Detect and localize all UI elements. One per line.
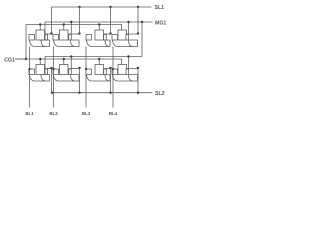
wire SL2 riser x51.5 — [51, 68, 53, 93]
node cell R1C2 MG junction — [70, 21, 72, 23]
wire cell R1C4 MG riser — [128, 22, 130, 35]
node SL2 junction x110 — [109, 92, 111, 94]
wire CG1 row2 horizontal — [15, 58, 122, 60]
node SL2 junction x52 — [51, 92, 53, 94]
wire cell R2C2 channel with drain curl — [54, 75, 75, 82]
transistor cell R1C1 memory-gate sidewall box — [45, 35, 48, 41]
node cell R1C1 CG junction — [39, 23, 41, 25]
wire SL2 riser x138 — [137, 68, 139, 93]
wire SL2 horizontal — [52, 92, 153, 94]
wire cell R2C2 source strap — [69, 68, 80, 70]
node cell R2C2 SL junction — [78, 67, 80, 69]
node cell R1C1 SL junction — [50, 32, 52, 34]
wire cell R2C1 source diffusion bump — [41, 75, 50, 82]
wire cell R2C2 source diffusion bump — [71, 75, 80, 82]
node cell R2C2 MG junction — [70, 55, 72, 57]
transistor cell R2C1 memory-gate sidewall box — [45, 69, 48, 75]
wire cell R2C1 CG stub — [39, 59, 41, 65]
node cell R1C3 CG junction — [98, 23, 100, 25]
wire cell R2C1 source strap — [45, 68, 52, 70]
wire cell R2C3 source diffusion bump — [105, 75, 110, 82]
wire cell R1C1 source strap — [45, 33, 52, 35]
wire MG1 riser right — [141, 22, 143, 57]
wire cell R2C3 channel with drain curl — [87, 75, 110, 82]
wire cell R1C2 source diffusion bump — [71, 40, 80, 47]
node MG1 right junction — [141, 21, 143, 23]
wire cell R1C1 channel with drain curl — [30, 40, 46, 47]
svg-text:MG1: MG1 — [155, 21, 166, 27]
node cell R2C1 CG junction — [39, 58, 41, 60]
wire SL1 horizontal — [52, 6, 152, 8]
wire SL1 drop x110.5 — [110, 7, 112, 34]
wire cell R1C3 source strap — [104, 33, 111, 35]
node BL1 pad junction — [28, 68, 30, 70]
wire cell R2C4 source strap — [126, 68, 138, 70]
contact cell R1C3 drain pad — [86, 35, 92, 41]
node cell R2C4 SL junction — [137, 67, 139, 69]
transistor cell R1C4 memory-gate sidewall box — [126, 35, 129, 41]
transistor cell R2C1 select-gate box — [36, 65, 45, 75]
node cell R2C1 SL junction — [50, 67, 52, 69]
svg-text:CG1: CG1 — [4, 57, 15, 63]
contact cell R1C2 drain pad — [53, 35, 59, 41]
wire cell R2C2 CG stub — [63, 59, 65, 65]
transistor cell R2C4 select-gate box — [118, 65, 127, 75]
wire cell R2C3 source strap — [104, 68, 111, 70]
wire cell R2C4 MG riser — [128, 57, 130, 70]
wire cell R2C4 channel with drain curl — [113, 75, 133, 82]
transistor cell R1C4 select-gate box — [118, 30, 127, 40]
transistor cell R2C2 memory-gate sidewall box — [69, 69, 72, 75]
wire cell R1C3 channel with drain curl — [87, 40, 110, 47]
wire cell R2C4 source diffusion bump — [129, 75, 138, 82]
transistor cell R1C1 select-gate box — [36, 30, 45, 40]
wire cell R1C4 channel with drain curl — [113, 40, 133, 47]
wire BL2 vertical — [53, 47, 55, 108]
wire cell R2C1 MG riser — [44, 57, 46, 70]
wire SL1 drop x51.5 — [51, 7, 53, 34]
node SL1-BL junction x79 — [78, 6, 80, 8]
contact cell R2C4 drain pad — [112, 69, 118, 75]
wire cell R1C3 source diffusion bump — [105, 40, 110, 47]
transistor cell R2C3 select-gate box — [95, 65, 104, 75]
wire SL1 drop x138 — [137, 7, 139, 34]
svg-text:BL3: BL3 — [82, 111, 91, 116]
wire CG row1 horizontal — [26, 24, 122, 26]
wire cell R1C2 channel with drain curl — [54, 40, 75, 47]
wire cell R2C2 MG riser — [70, 57, 72, 70]
wire BL3 vertical — [85, 47, 87, 108]
wire cell R1C1 CG stub — [39, 25, 41, 31]
wire MG1 horizontal — [45, 21, 153, 23]
contact cell R2C3 drain pad — [86, 69, 92, 75]
transistor cell R2C4 memory-gate sidewall box — [126, 69, 129, 75]
wire cell R2C4 CG stub — [121, 59, 123, 65]
node cell R1C4 MG junction — [127, 21, 129, 23]
wire CG riser left x26 — [25, 25, 27, 60]
wire BL4 vertical — [112, 47, 114, 108]
wire cell R2C1 channel with drain curl — [30, 75, 46, 82]
transistor cell R2C2 select-gate box — [60, 65, 69, 75]
node BL2 pad junction — [52, 68, 54, 70]
svg-text:BL2: BL2 — [49, 111, 58, 116]
transistor cell R1C3 select-gate box — [95, 30, 104, 40]
contact cell R1C4 drain pad — [112, 35, 118, 41]
contact cell R2C1 drain pad — [29, 69, 35, 75]
wire cell R1C1 MG riser — [44, 22, 46, 35]
node cell R2C2 CG junction — [63, 58, 65, 60]
wire MG row2 horizontal — [45, 56, 142, 58]
transistor cell R1C2 select-gate box — [60, 30, 69, 40]
wire CG1 label lead — [15, 58, 26, 60]
node cell R2C3 SL junction — [109, 67, 111, 69]
node SL2 junction x138 — [137, 92, 139, 94]
svg-text:BL4: BL4 — [109, 111, 118, 116]
wire cell R1C4 source strap — [126, 33, 138, 35]
node cell R1C3 SL junction — [109, 32, 111, 34]
wire SL1 drop x79.5 — [79, 7, 81, 34]
contact cell R2C2 drain pad — [53, 69, 59, 75]
svg-text:SL1: SL1 — [155, 5, 165, 11]
node cell R1C4 SL junction — [137, 32, 139, 34]
wire cell R1C2 source strap — [69, 33, 80, 35]
svg-text:BL1: BL1 — [25, 111, 34, 116]
wire cell R1C4 source diffusion bump — [129, 40, 138, 47]
wire cell R1C2 MG riser — [70, 22, 72, 35]
node cell R2C3 CG junction — [98, 58, 100, 60]
node CG1 junction left — [25, 58, 27, 60]
transistor cell R1C3 memory-gate sidewall box — [104, 35, 107, 41]
node cell R2C4 MG junction — [127, 55, 129, 57]
wire cell R1C2 CG stub — [63, 25, 65, 31]
node SL2 junction x79 — [78, 92, 80, 94]
wire BL1 vertical — [29, 47, 31, 108]
wire cell R2C3 CG stub — [98, 59, 100, 65]
wire cell R1C3 CG stub — [98, 25, 100, 31]
node SL1 junction x110 — [109, 6, 111, 8]
node BL3 pad junction — [85, 68, 87, 70]
node cell R1C2 SL junction — [78, 32, 80, 34]
wire SL2 riser x79.5 — [79, 68, 81, 93]
transistor cell R2C3 memory-gate sidewall box — [104, 69, 107, 75]
wire SL2 riser x110.5 — [110, 68, 112, 93]
wire cell R1C4 CG stub — [121, 25, 123, 31]
wire cell R1C1 source diffusion bump — [41, 40, 50, 47]
contact cell R1C1 drain pad — [29, 35, 35, 41]
node SL1 junction x138 — [137, 6, 139, 8]
svg-text:SL2: SL2 — [155, 91, 165, 97]
transistor cell R1C2 memory-gate sidewall box — [69, 35, 72, 41]
node BL4 pad junction — [112, 68, 114, 70]
node cell R1C2 CG junction — [63, 23, 65, 25]
